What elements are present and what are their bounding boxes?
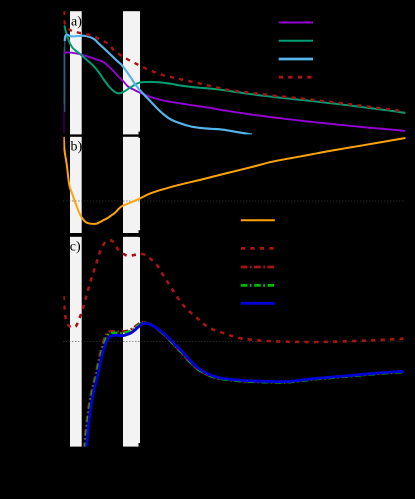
- white shaded band 1 panel c: [70, 237, 82, 447]
- panel a red dashed curve: [64, 11, 405, 112]
- dotted zero line panel b: [63, 200, 405, 202]
- legend panel a: green sample: [279, 40, 313, 42]
- svg-text:c): c): [70, 240, 81, 255]
- panel a purple curve: [64, 52, 405, 131]
- legend panel c: blue solid sample: [241, 302, 275, 305]
- panel c blue solid curve: [86, 323, 403, 449]
- axis tick mark at bar2, a/b boundary: [139, 132, 141, 138]
- legend panel c: green dash-dot sample: [241, 284, 275, 287]
- legend panel a: red dashed sample: [279, 76, 313, 79]
- white shaded band 1 panel a: [70, 11, 82, 134]
- panel c red dash-dot curve: [84, 322, 403, 449]
- panel a sky-blue curve initial rise: [64, 40, 66, 112]
- dotted zero line panel c: [63, 340, 405, 342]
- svg-text:b): b): [71, 140, 83, 155]
- panel c green dash-dot curve: [85, 322, 403, 449]
- legend panel b: orange sample: [241, 219, 275, 221]
- panel a green curve: [64, 26, 406, 113]
- svg-text:a): a): [71, 15, 82, 30]
- panel a purple curve initial rise: [63, 53, 65, 134]
- axis tick mark at bar2, panel c bottom: [139, 443, 141, 447]
- legend panel a: purple sample: [279, 22, 313, 24]
- panel a sky-blue curve: [65, 35, 252, 135]
- white shaded band 1 panel b: [70, 137, 82, 233]
- legend panel c: red dash-dot sample: [241, 266, 275, 269]
- white shaded band 2 panel b: [123, 137, 140, 233]
- legend panel a: sky-blue sample: [279, 58, 313, 61]
- axis tick mark at bar2, b/c boundary: [139, 230, 141, 237]
- white shaded band 2 panel a: [123, 11, 140, 134]
- panel b orange curve: [64, 136, 406, 224]
- white shaded band 2 panel c: [123, 237, 140, 447]
- panel a green curve initial rise: [63, 47, 65, 104]
- legend panel c: red dashed sample: [241, 247, 275, 250]
- panel c red dashed curve: [63, 240, 403, 342]
